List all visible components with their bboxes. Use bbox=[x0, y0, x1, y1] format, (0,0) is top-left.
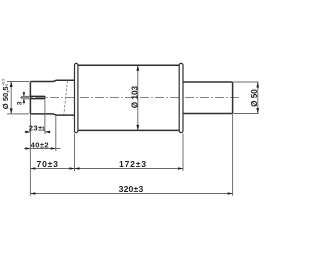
svg-text:Ø 50,5: Ø 50,5 bbox=[1, 86, 10, 110]
svg-text:320±3: 320±3 bbox=[119, 184, 144, 194]
dimension 320±3 bbox=[30, 193, 232, 195]
node outlet pipe bbox=[183, 82, 233, 114]
svg-text:23±: 23± bbox=[29, 123, 43, 132]
wire body shell top bbox=[78, 64, 180, 66]
svg-text:3: 3 bbox=[17, 101, 24, 105]
wire body shell bottom bbox=[78, 129, 180, 131]
svg-text:0: 0 bbox=[5, 84, 9, 86]
node inlet slot bbox=[30, 96, 45, 98]
svg-text:Ø 50: Ø 50 bbox=[250, 89, 259, 107]
dimension 3 slot bbox=[21, 92, 30, 105]
svg-text:1: 1 bbox=[42, 126, 45, 132]
svg-text:Ø 103: Ø 103 bbox=[130, 85, 139, 108]
node left end cap bbox=[75, 63, 78, 132]
wire extension lines below bbox=[30, 99, 232, 195]
node centerline bbox=[20, 97, 240, 99]
dimension 172±3 bbox=[75, 168, 184, 170]
dimension 40±2 bbox=[24, 148, 60, 150]
svg-text:70±3: 70±3 bbox=[37, 159, 59, 169]
dimension 70±3 bbox=[30, 168, 74, 170]
dimension Ø50 right bbox=[233, 82, 258, 114]
node inlet pipe bbox=[30, 80, 74, 115]
wire hidden crimp line bbox=[64, 81, 68, 115]
dimension Ø103 bbox=[137, 66, 139, 130]
dimension 23±1 bbox=[25, 131, 51, 133]
svg-text:40±2: 40±2 bbox=[31, 141, 49, 150]
node right end cap bbox=[179, 63, 183, 132]
svg-text:172±3: 172±3 bbox=[119, 159, 147, 169]
dimension Ø50,5 left bbox=[7, 82, 29, 114]
